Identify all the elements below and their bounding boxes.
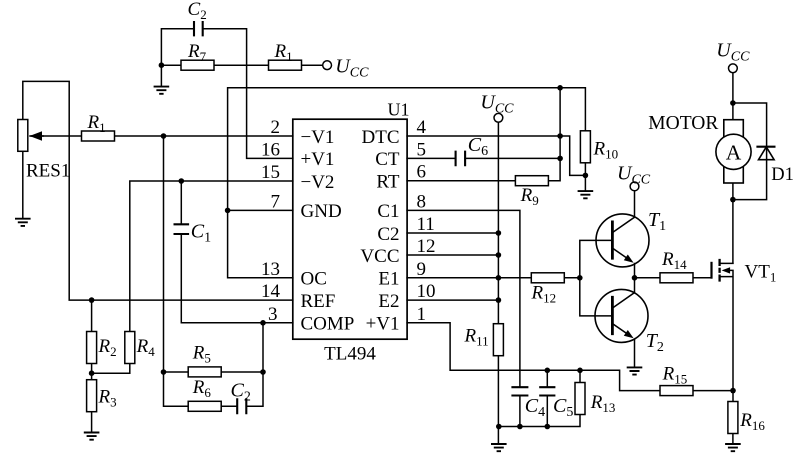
svg-text:E2: E2 — [378, 291, 399, 312]
svg-text:9: 9 — [417, 259, 427, 280]
svg-text:COMP: COMP — [301, 314, 355, 335]
svg-text:OC: OC — [301, 269, 327, 290]
svg-text:C2: C2 — [377, 224, 399, 245]
svg-text:10: 10 — [417, 281, 436, 302]
svg-text:A: A — [726, 140, 742, 164]
svg-text:−V1: −V1 — [301, 127, 335, 148]
svg-text:+V1: +V1 — [301, 149, 335, 170]
svg-text:VCC: VCC — [360, 246, 399, 267]
svg-text:14: 14 — [261, 281, 281, 302]
svg-text:7: 7 — [271, 191, 281, 212]
svg-text:1: 1 — [417, 304, 427, 325]
svg-text:REF: REF — [301, 291, 336, 312]
svg-text:4: 4 — [417, 117, 427, 138]
svg-text:MOTOR: MOTOR — [648, 113, 718, 134]
svg-text:16: 16 — [261, 139, 280, 160]
svg-text:11: 11 — [417, 214, 435, 235]
svg-text:U1: U1 — [388, 100, 410, 120]
svg-text:15: 15 — [261, 162, 280, 183]
svg-text:12: 12 — [417, 236, 436, 257]
svg-text:3: 3 — [268, 304, 278, 325]
svg-text:6: 6 — [417, 162, 427, 183]
svg-text:8: 8 — [417, 191, 427, 212]
svg-text:5: 5 — [417, 139, 427, 160]
svg-text:RES1: RES1 — [26, 161, 70, 182]
svg-text:+V1: +V1 — [366, 314, 400, 335]
svg-text:C1: C1 — [377, 201, 399, 222]
svg-text:2: 2 — [271, 117, 281, 138]
svg-text:GND: GND — [301, 201, 342, 222]
svg-text:−V2: −V2 — [301, 172, 335, 193]
svg-text:TL494: TL494 — [324, 344, 376, 365]
svg-text:RT: RT — [376, 172, 400, 193]
svg-text:E1: E1 — [378, 269, 399, 290]
svg-text:DTC: DTC — [362, 127, 400, 148]
svg-text:D1: D1 — [771, 165, 794, 185]
svg-text:CT: CT — [375, 149, 400, 170]
svg-text:13: 13 — [261, 259, 280, 280]
